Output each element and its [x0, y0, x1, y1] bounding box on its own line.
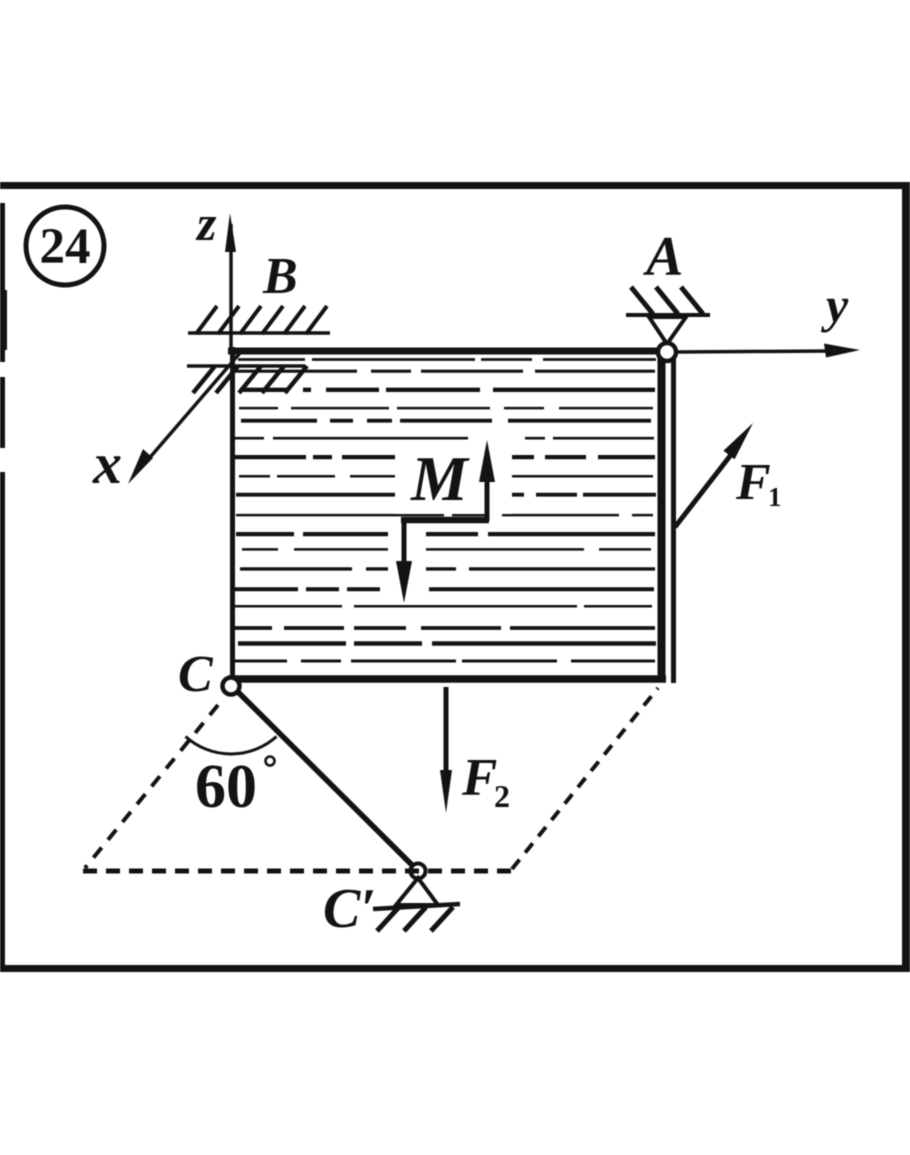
- svg-text:z: z: [195, 195, 217, 251]
- svg-text:M: M: [410, 443, 470, 514]
- svg-text:x: x: [92, 431, 122, 496]
- svg-text:2: 2: [494, 778, 510, 814]
- svg-text:24: 24: [40, 219, 91, 275]
- svg-text:A: A: [643, 226, 683, 288]
- svg-text:F: F: [461, 749, 497, 807]
- svg-text:C: C: [178, 646, 214, 703]
- svg-text:60: 60: [195, 753, 257, 821]
- svg-text:C′: C′: [323, 878, 376, 940]
- svg-text:1: 1: [768, 482, 782, 512]
- svg-text:y: y: [821, 277, 849, 333]
- svg-text:B: B: [262, 248, 298, 305]
- svg-text:F: F: [735, 454, 771, 511]
